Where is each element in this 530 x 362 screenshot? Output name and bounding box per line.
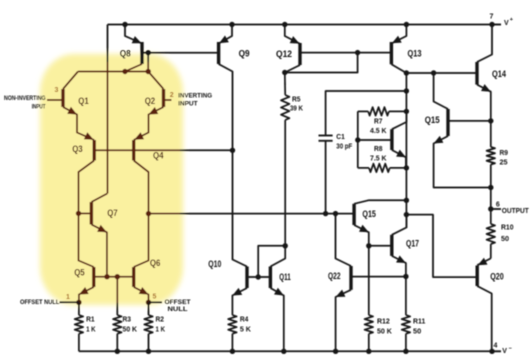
svg-text:50: 50: [413, 327, 421, 336]
svg-text:NON-INVERTING: NON-INVERTING: [4, 95, 46, 102]
svg-text:50 K: 50 K: [123, 325, 138, 334]
svg-text:V: V: [504, 20, 509, 27]
svg-text:NULL: NULL: [168, 306, 188, 313]
svg-text:Q22: Q22: [328, 271, 341, 281]
svg-text:Q4: Q4: [153, 150, 164, 160]
svg-text:OFFSET: OFFSET: [165, 299, 191, 306]
svg-text:39 K: 39 K: [290, 104, 304, 113]
svg-text:Q5: Q5: [74, 268, 85, 278]
svg-text:Q15: Q15: [362, 209, 376, 219]
svg-text:V: V: [502, 348, 507, 355]
svg-text:5: 5: [153, 294, 157, 301]
svg-text:Q2: Q2: [145, 96, 156, 106]
svg-text:INPUT: INPUT: [178, 101, 198, 108]
svg-text:50 K: 50 K: [377, 327, 393, 336]
svg-text:1: 1: [66, 294, 70, 301]
svg-text:OUTPUT: OUTPUT: [502, 208, 530, 215]
svg-text:Q13: Q13: [408, 48, 422, 58]
svg-text:Q10: Q10: [208, 259, 221, 269]
svg-text:Q6: Q6: [150, 258, 161, 268]
svg-text:30 pF: 30 pF: [336, 141, 353, 150]
svg-text:R1: R1: [86, 315, 95, 324]
svg-text:R10: R10: [501, 223, 514, 232]
svg-text:1 K: 1 K: [86, 325, 96, 334]
svg-text:Q1: Q1: [78, 96, 89, 106]
svg-text:Q12: Q12: [276, 49, 292, 59]
svg-text:R2: R2: [156, 315, 165, 324]
svg-text:+: +: [510, 17, 513, 23]
svg-text:Q8: Q8: [120, 48, 131, 58]
svg-text:R8: R8: [374, 144, 383, 153]
svg-text:50: 50: [501, 234, 509, 243]
svg-text:R3: R3: [123, 315, 132, 324]
svg-text:1 K: 1 K: [156, 325, 166, 334]
svg-text:Q15: Q15: [425, 115, 440, 125]
svg-text:C1: C1: [336, 132, 345, 141]
svg-text:Q7: Q7: [107, 208, 118, 218]
svg-text:Q20: Q20: [490, 271, 504, 281]
svg-text:4.5 K: 4.5 K: [370, 126, 387, 135]
svg-text:R7: R7: [374, 117, 383, 126]
svg-text:R4: R4: [240, 315, 249, 324]
svg-text:25: 25: [500, 157, 508, 166]
svg-text:OFFSET NULL: OFFSET NULL: [20, 299, 59, 306]
svg-text:7.5 K: 7.5 K: [370, 154, 387, 163]
svg-text:R11: R11: [413, 317, 425, 326]
svg-text:Q11: Q11: [279, 272, 291, 282]
svg-text:INPUT: INPUT: [32, 103, 46, 110]
svg-text:6: 6: [496, 201, 500, 208]
svg-text:R5: R5: [292, 95, 301, 104]
svg-text:Q17: Q17: [406, 239, 419, 249]
svg-text:7: 7: [490, 14, 494, 21]
svg-text:Q14: Q14: [492, 69, 506, 79]
svg-text:5 K: 5 K: [240, 325, 252, 334]
svg-text:Q3: Q3: [72, 144, 83, 154]
svg-text:INVERTING: INVERTING: [178, 92, 212, 99]
svg-text:R12: R12: [377, 317, 390, 326]
svg-text:Q9: Q9: [239, 48, 250, 58]
svg-text:2: 2: [170, 92, 174, 99]
svg-text:−: −: [509, 346, 512, 352]
svg-text:R9: R9: [500, 148, 509, 157]
svg-text:3: 3: [55, 87, 59, 94]
svg-text:4: 4: [494, 343, 498, 350]
